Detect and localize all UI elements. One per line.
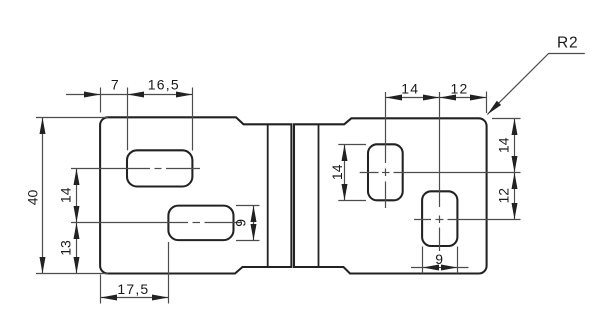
hole D lower-right — [422, 191, 457, 246]
leader R2 — [487, 54, 585, 115]
centerline slot A — [71, 168, 200, 170]
extension line right edge top for 14 — [492, 118, 521, 120]
svg-text:12: 12 — [496, 188, 512, 204]
extension line part right edge top — [486, 92, 488, 114]
svg-text:9: 9 — [232, 219, 248, 227]
dimension 14 and 13 left — [76, 169, 78, 274]
part outline left plate — [100, 117, 291, 273]
svg-text:16,5: 16,5 — [148, 77, 180, 93]
svg-text:40: 40 — [24, 190, 40, 206]
dimension 17,5 — [101, 297, 169, 299]
dimension 9 bottom — [411, 267, 469, 269]
svg-text:7: 7 — [111, 77, 119, 93]
svg-text:14: 14 — [58, 187, 74, 203]
part outline right plate — [294, 118, 487, 273]
centerline hole D vertical — [439, 92, 441, 251]
extension lines bottom-left dimension 17,5 — [101, 242, 169, 304]
svg-text:R2: R2 — [557, 35, 578, 52]
slot A upper-left — [127, 150, 192, 186]
extension lines hole C height 14 — [338, 145, 366, 201]
svg-text:9: 9 — [435, 251, 443, 267]
dimension 14 hole C rotated — [344, 145, 346, 201]
inner edge line left — [267, 124, 269, 267]
centerline hole C horizontal — [360, 172, 521, 174]
extension lines far left — [36, 118, 108, 274]
extension lines rotated 9 at slot B — [236, 206, 260, 241]
dimension 7 and 16,5 line — [66, 94, 193, 96]
svg-text:13: 13 — [58, 240, 74, 256]
svg-text:12: 12 — [451, 81, 469, 97]
hole C upper-right — [368, 144, 403, 200]
dimension 14 and 12 top-right line — [386, 97, 487, 99]
centerline hole C vertical — [385, 92, 387, 208]
extension lines top-left dimension group — [101, 88, 193, 151]
svg-text:14: 14 — [496, 137, 512, 153]
svg-text:17,5: 17,5 — [117, 281, 149, 297]
svg-text:14: 14 — [329, 164, 345, 180]
inner edge line right — [318, 124, 320, 267]
svg-text:14: 14 — [401, 81, 419, 97]
dimension 14 and 12 right side — [514, 119, 516, 220]
centerline hole D horizontal — [414, 219, 521, 221]
slot B center-left — [168, 206, 233, 241]
dimension 9 rotated at slot B — [253, 206, 255, 241]
extension lines bottom 9 at hole D — [423, 247, 458, 274]
dimension 40 — [42, 118, 44, 274]
centerline slot B — [71, 222, 241, 224]
